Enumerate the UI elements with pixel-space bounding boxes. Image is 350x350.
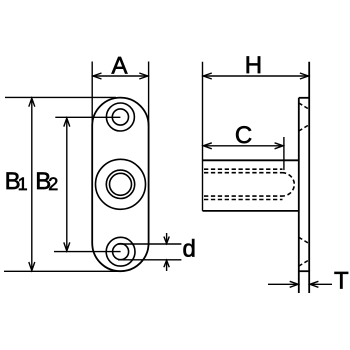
label H [245, 52, 262, 79]
dimension d lower arrow [164, 260, 169, 271]
dimension T left arrow [268, 281, 298, 287]
label A [111, 52, 127, 79]
top hole inner circle [112, 109, 128, 125]
side view flange bottom edge [299, 270, 309, 272]
svg-text:C: C [235, 122, 252, 149]
svg-text:2: 2 [48, 174, 58, 194]
svg-text:1: 1 [18, 174, 28, 194]
dimension B2 top extension line [55, 116, 120, 118]
dimension d bottom tangent line [118, 259, 181, 261]
label B2 [35, 168, 58, 195]
middle hole outer circle [96, 159, 146, 209]
hidden thread line lower inner [204, 195, 282, 197]
hidden thread line lower outer [204, 199, 283, 201]
dimension B2 arrow line [64, 118, 70, 251]
label C [235, 122, 252, 149]
hidden thread line upper inner [204, 172, 282, 174]
bottom hole outer circle [106, 237, 135, 266]
svg-text:H: H [245, 52, 262, 79]
hidden thread line upper outer [204, 168, 283, 170]
svg-text:A: A [111, 52, 127, 79]
middle hole middle circle [106, 170, 134, 198]
top hole outer circle [106, 103, 134, 131]
dimension B2 bottom extension line [54, 251, 121, 253]
svg-text:T: T [334, 268, 349, 295]
dimension B1 bottom extension line [4, 270, 118, 272]
side view flange left face line [298, 98, 300, 293]
dimension B1 arrow line [29, 98, 35, 270]
countersink hidden line bottom hole lower [299, 260, 309, 266]
side view left extension / boss face line [202, 62, 204, 211]
dimension A left extension line [91, 62, 93, 127]
countersink hidden line bottom hole upper [299, 237, 309, 243]
svg-text:d: d [183, 236, 196, 263]
bottom hole inner circle [113, 244, 129, 260]
side view flange top edge [299, 97, 309, 99]
countersink hidden line top hole upper [299, 103, 309, 109]
dimension H arrow line [203, 73, 308, 79]
middle hole inner circle [110, 173, 132, 195]
boss bottom edge [203, 210, 299, 212]
hidden hole rounded end arc [282, 173, 294, 196]
dimension B1 top extension line [5, 96, 116, 98]
label d [183, 236, 196, 263]
dimension A arrow line [93, 73, 148, 79]
dimension d upper arrow [164, 233, 169, 244]
boss top edge [203, 159, 299, 161]
dimension A right extension line [148, 62, 150, 127]
dimension d top tangent line [118, 243, 181, 245]
dimension C arrow line [203, 143, 283, 149]
side view flange right face line [308, 62, 310, 293]
countersink hidden line top hole lower [299, 125, 309, 131]
dimension T right arrow [310, 281, 332, 287]
label B1 [5, 168, 28, 195]
dimension C right extension line [283, 137, 285, 170]
label T [334, 268, 349, 295]
front view plate outline (stadium) [92, 98, 148, 272]
